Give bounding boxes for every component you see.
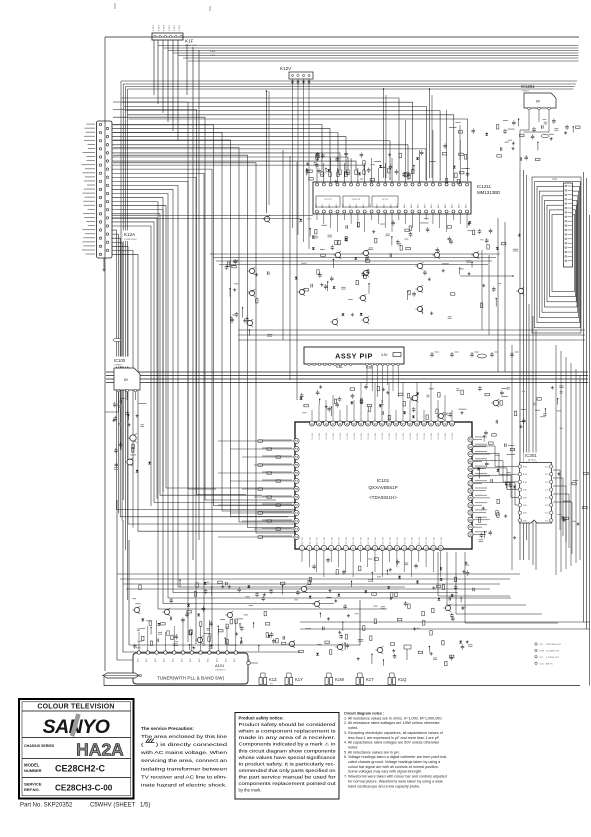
svg-text:The service Precaution:: The service Precaution:	[141, 726, 194, 731]
svg-text:T-BGSH-77: T-BGSH-77	[215, 670, 226, 672]
svg-text:Y IN SEL: Y IN SEL	[368, 433, 370, 440]
svg-text:IC100: IC100	[114, 358, 126, 363]
svg-text:P OUT: P OUT	[153, 24, 155, 31]
svg-text:V. DRIVE OUT: V. DRIVE OUT	[546, 657, 560, 659]
svg-text:OUT SEL: OUT SEL	[353, 537, 355, 545]
svg-text:servicing the area, connect an: servicing the area, connect an	[141, 758, 228, 763]
svg-text:cated chassis ground. Voltage: cated chassis ground. Voltage readings t…	[348, 760, 441, 764]
svg-text:Y IN SEL: Y IN SEL	[417, 433, 419, 440]
svg-text:9V: 9V	[536, 100, 541, 104]
svg-text:OUT SEL: OUT SEL	[397, 537, 399, 545]
svg-text:Some voltages may vary with si: Some voltages may vary with signal stren…	[348, 770, 422, 774]
svg-text:OUT SEL: OUT SEL	[368, 537, 370, 545]
svg-text:(COMP SIDE): (COMP SIDE)	[124, 239, 137, 241]
svg-text:H. DRIVE OUT: H. DRIVE OUT	[546, 651, 560, 653]
svg-text:Product safety notice:: Product safety notice:	[239, 716, 285, 721]
svg-text:AB12: AB12	[444, 204, 447, 208]
svg-text:Y IN SEL: Y IN SEL	[452, 433, 454, 440]
svg-text:AGC: AGC	[198, 657, 201, 662]
svg-text:Y IN SEL: Y IN SEL	[333, 433, 335, 440]
svg-text:Y IN SEL: Y IN SEL	[382, 433, 384, 440]
svg-text:components replacement pointed: components replacement pointed out	[239, 781, 337, 786]
svg-text:AGC: AGC	[180, 657, 183, 662]
svg-text:K1Y: K1Y	[295, 677, 303, 682]
svg-text:OUT SEL: OUT SEL	[441, 537, 443, 545]
svg-text:AGC: AGC	[233, 657, 236, 662]
svg-text:AGC: AGC	[154, 657, 157, 662]
svg-text:noted.: noted.	[348, 745, 358, 749]
svg-text:P OUT: P OUT	[164, 24, 166, 31]
svg-text:band oscilloscope and a low ca: band oscilloscope and a low capacity pro…	[348, 784, 420, 788]
svg-text:HA2A: HA2A	[76, 740, 124, 760]
svg-text:AB12: AB12	[321, 204, 324, 208]
svg-text:Part No. SKP20352: Part No. SKP20352	[20, 803, 73, 809]
svg-text:QXXAVB551P: QXXAVB551P	[368, 485, 397, 490]
svg-text:(IF): (IF)	[270, 684, 273, 686]
svg-text:AGC: AGC	[136, 657, 139, 662]
svg-text:AB12: AB12	[437, 204, 440, 208]
svg-text:Y IN SEL: Y IN SEL	[375, 433, 377, 440]
svg-text:AB12: AB12	[451, 204, 454, 208]
svg-text:K.ABL: K.ABL	[210, 50, 217, 53]
svg-text:M24C04: M24C04	[528, 460, 536, 462]
svg-text:Y IN SEL: Y IN SEL	[389, 433, 391, 440]
svg-text:IC301: IC301	[525, 453, 537, 458]
svg-text:P OUT: P OUT	[179, 24, 181, 31]
svg-text:AB12: AB12	[423, 204, 426, 208]
svg-text:3. Excepting electrolytic capa: 3. Excepting electrolytic capacitors, al…	[344, 731, 444, 735]
svg-text:AB12: AB12	[369, 204, 372, 208]
svg-text:P OUT: P OUT	[158, 24, 160, 31]
svg-text:AB12: AB12	[362, 204, 365, 208]
svg-text:SERVICE: SERVICE	[24, 782, 42, 787]
svg-text:OUT SEL: OUT SEL	[302, 537, 304, 545]
svg-text:AB12: AB12	[328, 204, 331, 208]
svg-text:OUT SEL: OUT SEL	[426, 537, 428, 545]
svg-text:Y IN SEL: Y IN SEL	[319, 433, 321, 440]
svg-text:OUT SEL: OUT SEL	[375, 537, 377, 545]
svg-text:K1Q: K1Q	[540, 663, 544, 665]
svg-text:Y IN SEL: Y IN SEL	[438, 433, 440, 440]
svg-text:K1W: K1W	[335, 677, 344, 682]
svg-text:AB12: AB12	[389, 204, 392, 208]
svg-text:EXT IN: EXT IN	[382, 199, 388, 201]
svg-text:Y IN SEL: Y IN SEL	[354, 433, 356, 440]
svg-text:for normal picture. Waveforms: for normal picture. Waveforms were taken…	[348, 779, 443, 783]
svg-text:CE28CH2-C: CE28CH2-C	[55, 764, 106, 774]
svg-text:OUT SEL: OUT SEL	[317, 537, 319, 545]
svg-text:Y IN SEL: Y IN SEL	[361, 433, 363, 440]
svg-text:A101: A101	[215, 663, 225, 668]
svg-text:NUMBER: NUMBER	[24, 768, 42, 773]
svg-text:AB12: AB12	[355, 204, 358, 208]
svg-text:noted.: noted.	[348, 726, 358, 730]
svg-text:AB12: AB12	[383, 204, 386, 208]
svg-text:1/5): 1/5)	[140, 803, 150, 809]
svg-text:OUT SEL: OUT SEL	[404, 537, 406, 545]
svg-text:inate hazard of electric shock: inate hazard of electric shock.	[141, 782, 227, 787]
svg-text:to product safety. It is parti: to product safety. It is particularly re…	[239, 761, 337, 766]
svg-text:CE28CH3-C-00: CE28CH3-C-00	[55, 784, 113, 793]
svg-text:AGC: AGC	[145, 657, 148, 662]
svg-text:OUT SEL: OUT SEL	[382, 537, 384, 545]
svg-text:OUT SEL: OUT SEL	[390, 537, 392, 545]
svg-text:P OUT: P OUT	[169, 24, 171, 31]
svg-text:when a component replacement i: when a component replacement is	[239, 729, 336, 734]
svg-text:7. Waveforms were taken with c: 7. Waveforms were taken with colour bar …	[344, 775, 447, 779]
svg-text:K.ABL: K.ABL	[210, 54, 217, 57]
svg-text:The area enclosed by this line: The area enclosed by this line	[141, 734, 228, 739]
svg-text:TUNER(WITH PLL & BAND SW): TUNER(WITH PLL & BAND SW)	[157, 676, 224, 681]
svg-text:L78M05T: L78M05T	[114, 365, 123, 367]
svg-text:OUT SEL: OUT SEL	[412, 537, 414, 545]
svg-text:E-W DRIVE OUT: E-W DRIVE OUT	[546, 644, 562, 646]
svg-text:AFC IN: AFC IN	[546, 662, 553, 665]
svg-text:P OUT: P OUT	[174, 24, 176, 31]
svg-text:5V: 5V	[124, 378, 129, 382]
svg-text:less than 1 are expressed in µ: less than 1 are expressed in µF and more…	[348, 736, 440, 740]
svg-text:OUT SEL: OUT SEL	[339, 537, 341, 545]
svg-text:AB12: AB12	[403, 204, 406, 208]
svg-text:whose values have special sign: whose values have special significance	[239, 755, 337, 760]
svg-text:CHASSIS SERIES: CHASSIS SERIES	[24, 744, 55, 748]
svg-text:K1W: K1W	[540, 651, 544, 653]
svg-text:REF.NO.: REF.NO.	[24, 787, 40, 792]
svg-text:2. All resistance rated wattag: 2. All resistance rated wattages are 1/6…	[344, 721, 440, 725]
svg-text:AGC: AGC	[207, 657, 210, 662]
svg-text:Y IN SEL: Y IN SEL	[403, 433, 405, 440]
svg-text:OUT SEL: OUT SEL	[434, 537, 436, 545]
svg-text:Y IN SEL: Y IN SEL	[326, 433, 328, 440]
svg-text:Product safety should be consi: Product safety should be considered	[239, 722, 337, 727]
svg-text:Y IN SEL: Y IN SEL	[410, 433, 412, 440]
svg-text:AB12: AB12	[464, 204, 467, 208]
svg-text:Y IN SEL: Y IN SEL	[312, 433, 314, 440]
svg-text:AB12: AB12	[396, 204, 399, 208]
svg-text:K1F: K1F	[185, 39, 194, 44]
svg-text:6. Voltage readings taken a di: 6. Voltage readings taken a digital volt…	[344, 755, 448, 759]
svg-text:colour bar signal are with all: colour bar signal are with all controls …	[348, 765, 439, 769]
svg-text:4. All capacitance rated volta: 4. All capacitance rated voltages are 50…	[344, 741, 439, 745]
svg-text:MM1313BD: MM1313BD	[477, 190, 500, 195]
svg-text:Y IN SEL: Y IN SEL	[431, 433, 433, 440]
svg-text:AB12: AB12	[335, 204, 338, 208]
svg-text:K1Z: K1Z	[269, 677, 277, 682]
svg-text:FRONT IN: FRONT IN	[352, 199, 361, 201]
svg-text:PIP OUT: PIP OUT	[324, 199, 332, 201]
svg-text:K12V: K12V	[280, 66, 292, 71]
svg-text:K12A: K12A	[124, 232, 136, 237]
svg-text:OUT SEL: OUT SEL	[331, 537, 333, 545]
svg-text:isolating transformer between: isolating transformer between	[141, 766, 228, 771]
svg-text:COLOUR TELEVISION: COLOUR TELEVISION	[37, 704, 114, 711]
svg-text:IC101: IC101	[377, 478, 390, 483]
svg-text:1. All resistance values are i: 1. All resistance values are in ohms, K=…	[344, 716, 442, 720]
svg-text:<TDA9321H>: <TDA9321H>	[369, 495, 397, 500]
svg-text:MODEL: MODEL	[24, 763, 40, 768]
svg-text:AGC: AGC	[163, 657, 166, 662]
svg-text:by the mark.: by the mark.	[239, 788, 262, 793]
svg-text:5. All inductance values are i: 5. All inductance values are in µH.	[344, 750, 400, 754]
svg-text:with AC mains voltage. When: with AC mains voltage. When	[141, 750, 228, 755]
svg-text:TV receiver and AC line to eli: TV receiver and AC line to elim-	[141, 774, 228, 779]
svg-text:AGC: AGC	[224, 657, 227, 662]
svg-text:L78M09T: L78M09T	[521, 91, 530, 93]
svg-text:OUT SEL: OUT SEL	[324, 537, 326, 545]
svg-text:OUT SEL: OUT SEL	[346, 537, 348, 545]
svg-text:AB12: AB12	[417, 204, 420, 208]
svg-text:Components indicated by a mark: Components indicated by a mark ⚠ in	[239, 742, 337, 747]
svg-text:OUT SEL: OUT SEL	[361, 537, 363, 545]
svg-text:Circuit diagram notes :: Circuit diagram notes :	[344, 712, 384, 716]
svg-text:this circuit diagram show comp: this circuit diagram show components	[239, 748, 336, 753]
svg-text:Y IN SEL: Y IN SEL	[340, 433, 342, 440]
svg-text:CN2: CN2	[552, 178, 557, 181]
svg-text:IC1251: IC1251	[521, 84, 535, 89]
svg-text:Y IN SEL: Y IN SEL	[347, 433, 349, 440]
svg-text:AB12: AB12	[430, 204, 433, 208]
svg-text:C5WHV (SHEET: C5WHV (SHEET	[90, 803, 136, 809]
svg-text:made in any area of a receiver: made in any area of a receiver.	[239, 735, 336, 740]
svg-text:Y IN SEL: Y IN SEL	[424, 433, 426, 440]
svg-text:K1Q: K1Q	[398, 677, 407, 682]
svg-text:AB12: AB12	[458, 204, 461, 208]
svg-text:K1T: K1T	[366, 677, 374, 682]
svg-text:ommended that only parts speci: ommended that only parts specified on	[239, 768, 337, 773]
svg-text:AGC: AGC	[189, 657, 192, 662]
svg-text:the part service manual be use: the part service manual be used for	[239, 774, 337, 779]
svg-text:OUT SEL: OUT SEL	[419, 537, 421, 545]
svg-text:ASSY PIP: ASSY PIP	[335, 352, 373, 361]
svg-text:Y IN SEL: Y IN SEL	[445, 433, 447, 440]
svg-text:Y IN SEL: Y IN SEL	[396, 433, 398, 440]
svg-text:AB12: AB12	[348, 204, 351, 208]
svg-text:IC1211: IC1211	[477, 184, 491, 189]
svg-text:AB12: AB12	[410, 204, 413, 208]
svg-text:AB12: AB12	[376, 204, 379, 208]
svg-text:3.3V: 3.3V	[381, 353, 388, 357]
svg-text:OUT SEL: OUT SEL	[309, 537, 311, 545]
